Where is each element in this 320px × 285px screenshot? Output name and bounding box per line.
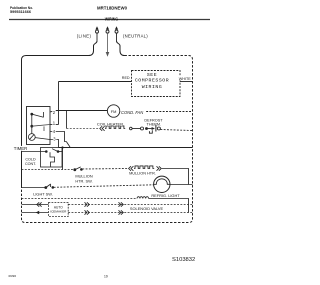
svg-text:COLD: COLD xyxy=(25,157,36,161)
svg-text:LIGHT SW.: LIGHT SW. xyxy=(33,191,53,196)
svg-text:RED: RED xyxy=(122,76,130,80)
svg-text:MULLION HTR.: MULLION HTR. xyxy=(129,172,156,176)
svg-text:FM: FM xyxy=(111,109,117,114)
svg-text:COND. FAN: COND. FAN xyxy=(121,110,143,115)
svg-text:S103832: S103832 xyxy=(172,257,195,263)
svg-text:SOLENOID VALVE: SOLENOID VALVE xyxy=(130,206,164,211)
svg-text:5995311666: 5995311666 xyxy=(10,10,31,14)
svg-text:COIL HEATER: COIL HEATER xyxy=(97,121,123,126)
svg-text:HTR. SW.: HTR. SW. xyxy=(75,178,92,183)
svg-text:REFRIG. LIGHT: REFRIG. LIGHT xyxy=(151,193,180,198)
svg-text:THERM.: THERM. xyxy=(147,122,162,126)
svg-text:WHITE: WHITE xyxy=(179,77,191,81)
svg-text:ICEMAKER: ICEMAKER xyxy=(50,210,67,214)
svg-text:COMPRESSOR: COMPRESSOR xyxy=(135,78,169,84)
svg-text:WIRING: WIRING xyxy=(105,17,119,22)
svg-text:TIMER: TIMER xyxy=(14,146,28,151)
svg-text:SEE: SEE xyxy=(147,72,157,78)
svg-text:CONT.: CONT. xyxy=(25,162,36,166)
svg-text:09/96: 09/96 xyxy=(9,274,17,278)
svg-text:19: 19 xyxy=(104,274,108,278)
svg-text:WIRING: WIRING xyxy=(142,84,163,90)
svg-text:(NEUTRAL): (NEUTRAL) xyxy=(123,34,148,39)
svg-text:MRT18DNEW0: MRT18DNEW0 xyxy=(97,5,128,10)
svg-text:(LINE): (LINE) xyxy=(77,34,92,39)
